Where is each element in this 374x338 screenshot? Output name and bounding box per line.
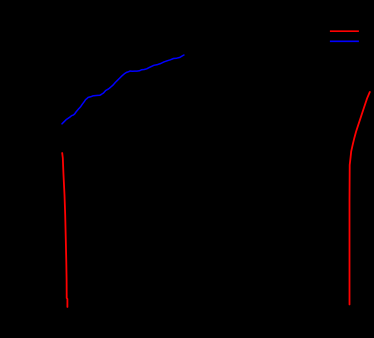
legend swatch red (330, 30, 359, 32)
legend swatch blue (330, 40, 359, 42)
red curve left (steep vertical segment) (62, 153, 67, 307)
blue data curve (62, 55, 184, 124)
red curve right (slanted then vertical segment) (350, 92, 370, 305)
